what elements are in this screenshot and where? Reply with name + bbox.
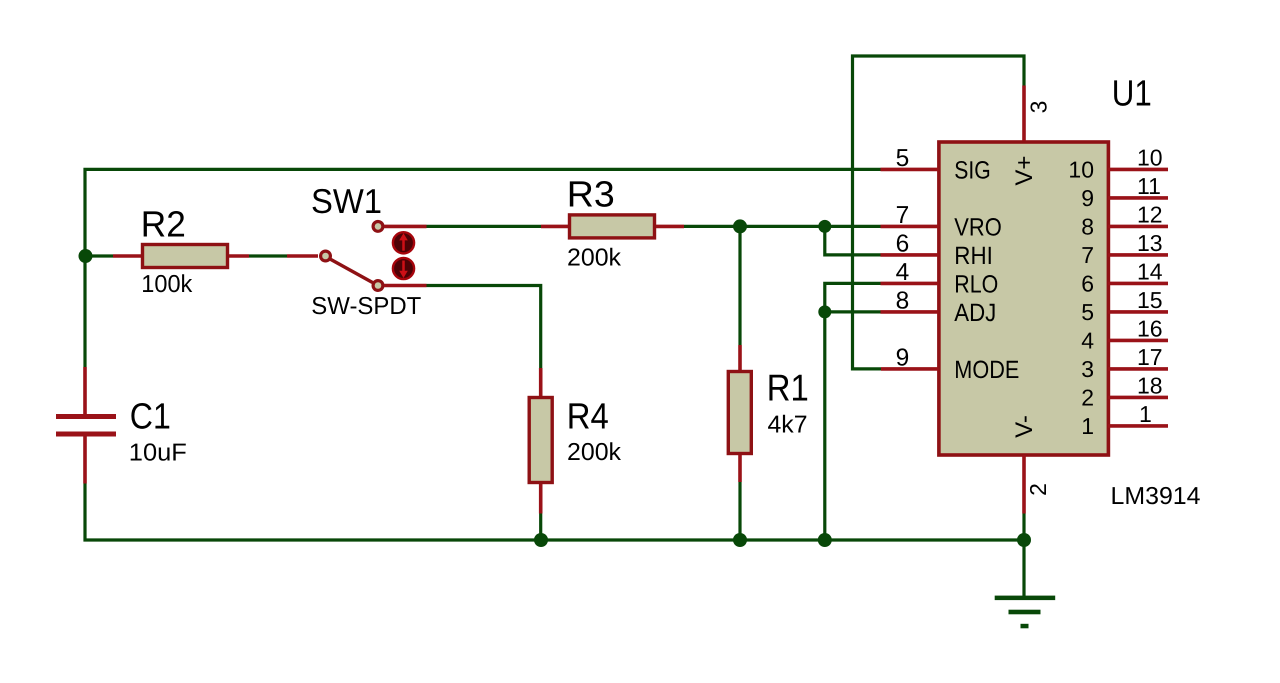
junction node on VRO line [818, 220, 831, 233]
ground symbol [995, 596, 1055, 629]
junction node on ADJ line [818, 305, 831, 318]
svg-text:15: 15 [1137, 287, 1163, 313]
switch actuator up button [393, 232, 414, 253]
wire SIG net: pin 5 across the top to the left rail [85, 169, 881, 367]
pin 3 stub (top) [1022, 86, 1026, 142]
pin 7 stub [881, 225, 939, 229]
pin 6 stub [881, 253, 939, 257]
svg-text:10uF: 10uF [129, 440, 187, 467]
svg-text:R1: R1 [767, 367, 809, 409]
wire RLO/ADJ net down to ground rail [825, 283, 881, 540]
junction node R4/rail [534, 533, 548, 547]
svg-text:5: 5 [896, 145, 910, 172]
svg-text:8: 8 [1081, 213, 1094, 239]
svg-text:4: 4 [896, 259, 910, 286]
svg-text:4k7: 4k7 [768, 412, 808, 439]
svg-text:RLO: RLO [954, 270, 998, 298]
resistor R3 [541, 215, 684, 238]
resistor R2 [113, 245, 249, 268]
svg-text:11: 11 [1137, 173, 1161, 199]
svg-text:SIG: SIG [954, 156, 991, 184]
svg-text:12: 12 [1137, 201, 1163, 227]
svg-text:6: 6 [896, 231, 910, 258]
svg-text:U1: U1 [1112, 73, 1152, 114]
svg-text:9: 9 [1081, 185, 1094, 211]
junction node pin2/rail [1017, 533, 1031, 547]
pin 5 stub [881, 168, 939, 172]
svg-text:LM3914: LM3914 [1111, 483, 1201, 510]
svg-text:C1: C1 [130, 395, 171, 436]
svg-text:RHI: RHI [954, 242, 993, 270]
junction node R1/rail [733, 533, 747, 547]
svg-text:3: 3 [1081, 356, 1094, 382]
svg-text:200k: 200k [567, 245, 622, 272]
svg-text:18: 18 [1137, 372, 1163, 398]
svg-text:17: 17 [1137, 344, 1163, 370]
svg-text:16: 16 [1137, 315, 1163, 341]
svg-text:7: 7 [1081, 242, 1094, 268]
svg-text:9: 9 [896, 345, 910, 372]
svg-text:3: 3 [1025, 101, 1051, 114]
svg-text:VRO: VRO [954, 213, 1002, 241]
junction node RLO net/rail [818, 533, 832, 547]
junction node at left rail [79, 249, 93, 263]
pin 2 stub (bottom) [1022, 455, 1026, 514]
wire R4 to ground rail [539, 514, 542, 541]
svg-text:100k: 100k [141, 271, 193, 298]
svg-text:SW1: SW1 [311, 183, 382, 221]
resistor R1 [728, 345, 751, 482]
wire SW1 throw 2 down to R4 [427, 286, 541, 369]
pin 8 stub [881, 310, 939, 314]
wire ground rail [85, 484, 1024, 541]
wire pin 2 to ground rail and ground symbol [1022, 514, 1025, 598]
resistor R4 [529, 368, 552, 514]
svg-text:5: 5 [1081, 299, 1094, 325]
svg-text:R2: R2 [141, 204, 186, 245]
wire R2 to SW1 pole [249, 254, 287, 257]
wire V+ net: MODE riser, top run, down to pin 3 [853, 56, 1025, 369]
switch actuator down button [393, 258, 414, 279]
svg-text:7: 7 [896, 202, 910, 229]
wire VRO to RHI link [825, 226, 881, 255]
svg-text:ADJ: ADJ [954, 299, 996, 327]
svg-text:6: 6 [1081, 270, 1094, 296]
wire R1 to ground rail [738, 482, 741, 540]
pin 4 stub [881, 282, 939, 286]
svg-text:13: 13 [1137, 230, 1163, 256]
svg-text:1: 1 [1139, 401, 1152, 427]
right pin stubs 10-18 and 1 [1108, 169, 1168, 426]
svg-text:V+: V+ [1011, 156, 1038, 186]
svg-text:R4: R4 [567, 396, 609, 437]
svg-text:8: 8 [896, 288, 910, 315]
svg-text:R3: R3 [567, 174, 615, 215]
svg-text:2: 2 [1025, 483, 1051, 496]
wire R3 to VRO pin 7 [684, 225, 881, 228]
svg-text:2: 2 [1081, 384, 1094, 410]
svg-text:10: 10 [1137, 144, 1163, 170]
wire SW1 throw 1 to R3 [427, 225, 542, 228]
wire R3 junction down to R1 [738, 226, 741, 345]
svg-text:SW-SPDT: SW-SPDT [311, 293, 421, 320]
svg-text:MODE: MODE [954, 356, 1019, 384]
svg-text:200k: 200k [567, 439, 622, 466]
svg-text:4: 4 [1081, 327, 1094, 353]
wire ADJ branch [825, 310, 881, 313]
switch SW1 (SPDT) [287, 222, 427, 291]
svg-text:V-: V- [1011, 415, 1038, 438]
junction node R3/R1 [733, 219, 747, 233]
op IC U1 LM3914 body [939, 142, 1109, 455]
svg-text:10: 10 [1068, 156, 1094, 182]
svg-text:1: 1 [1081, 413, 1094, 439]
wire junction to R2 [85, 254, 113, 257]
pin 9 stub [881, 367, 939, 371]
capacitor C1 [56, 367, 116, 484]
svg-text:14: 14 [1137, 258, 1163, 284]
